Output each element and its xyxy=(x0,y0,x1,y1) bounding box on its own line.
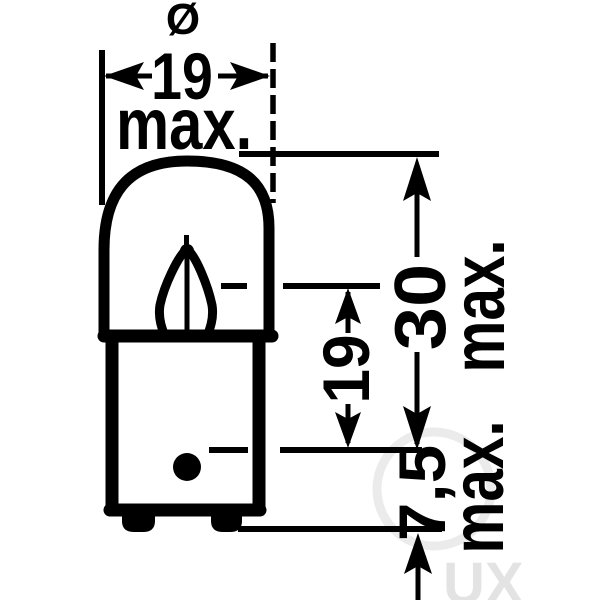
filament centerline extension right xyxy=(283,283,380,289)
dimension arrow left (19 top) xyxy=(104,62,152,90)
base contact bump right xyxy=(211,512,242,532)
filament right stroke xyxy=(187,249,213,336)
dimension arrow right (19 top) xyxy=(218,62,270,90)
extension line left xyxy=(99,50,105,205)
filament center line xyxy=(185,252,190,339)
glass bottom bar xyxy=(104,330,272,343)
filament top spike xyxy=(184,235,189,252)
dimension text 19 top xyxy=(151,39,213,113)
extension line right dashed xyxy=(270,43,276,203)
dimension 19 vertical lower arrow xyxy=(335,404,361,448)
label max. bottom xyxy=(438,420,520,553)
dimension 30 vertical lower arrow xyxy=(403,352,431,450)
filament apex xyxy=(180,244,194,258)
base bottom bar xyxy=(110,504,260,517)
dimension text 30 xyxy=(380,264,461,350)
reference line 2 (bottom plane) xyxy=(238,526,442,532)
dimension 30 vertical upper arrow xyxy=(403,157,431,257)
dimension 19 vertical upper arrow xyxy=(335,288,361,333)
label max. right xyxy=(439,239,521,372)
filament horizontal centerline dash xyxy=(221,283,247,289)
svg-text:UX: UX xyxy=(443,551,524,600)
reference line 1 (base plane) dash xyxy=(209,447,248,453)
watermark circle xyxy=(377,432,491,546)
dimension 7,5 arrow up xyxy=(404,533,432,600)
reference dot on base xyxy=(173,453,201,481)
label max. top xyxy=(116,85,252,166)
dimension text 7,5 xyxy=(386,445,459,541)
filament left stroke xyxy=(159,249,187,336)
svg-text:max.: max. xyxy=(439,239,521,372)
svg-text:19: 19 xyxy=(309,334,383,403)
top reference line xyxy=(239,151,439,157)
dimension text 19 vertical xyxy=(309,334,383,403)
bulb base left wall xyxy=(106,340,119,508)
svg-text:max.: max. xyxy=(438,420,520,553)
svg-text:max.: max. xyxy=(116,85,252,166)
base contact bump left xyxy=(122,512,155,532)
bulb base right wall xyxy=(253,340,266,508)
reference line 1 (base plane) xyxy=(280,447,422,453)
bulb dome outline xyxy=(104,161,269,336)
svg-text:Ø: Ø xyxy=(166,0,200,44)
